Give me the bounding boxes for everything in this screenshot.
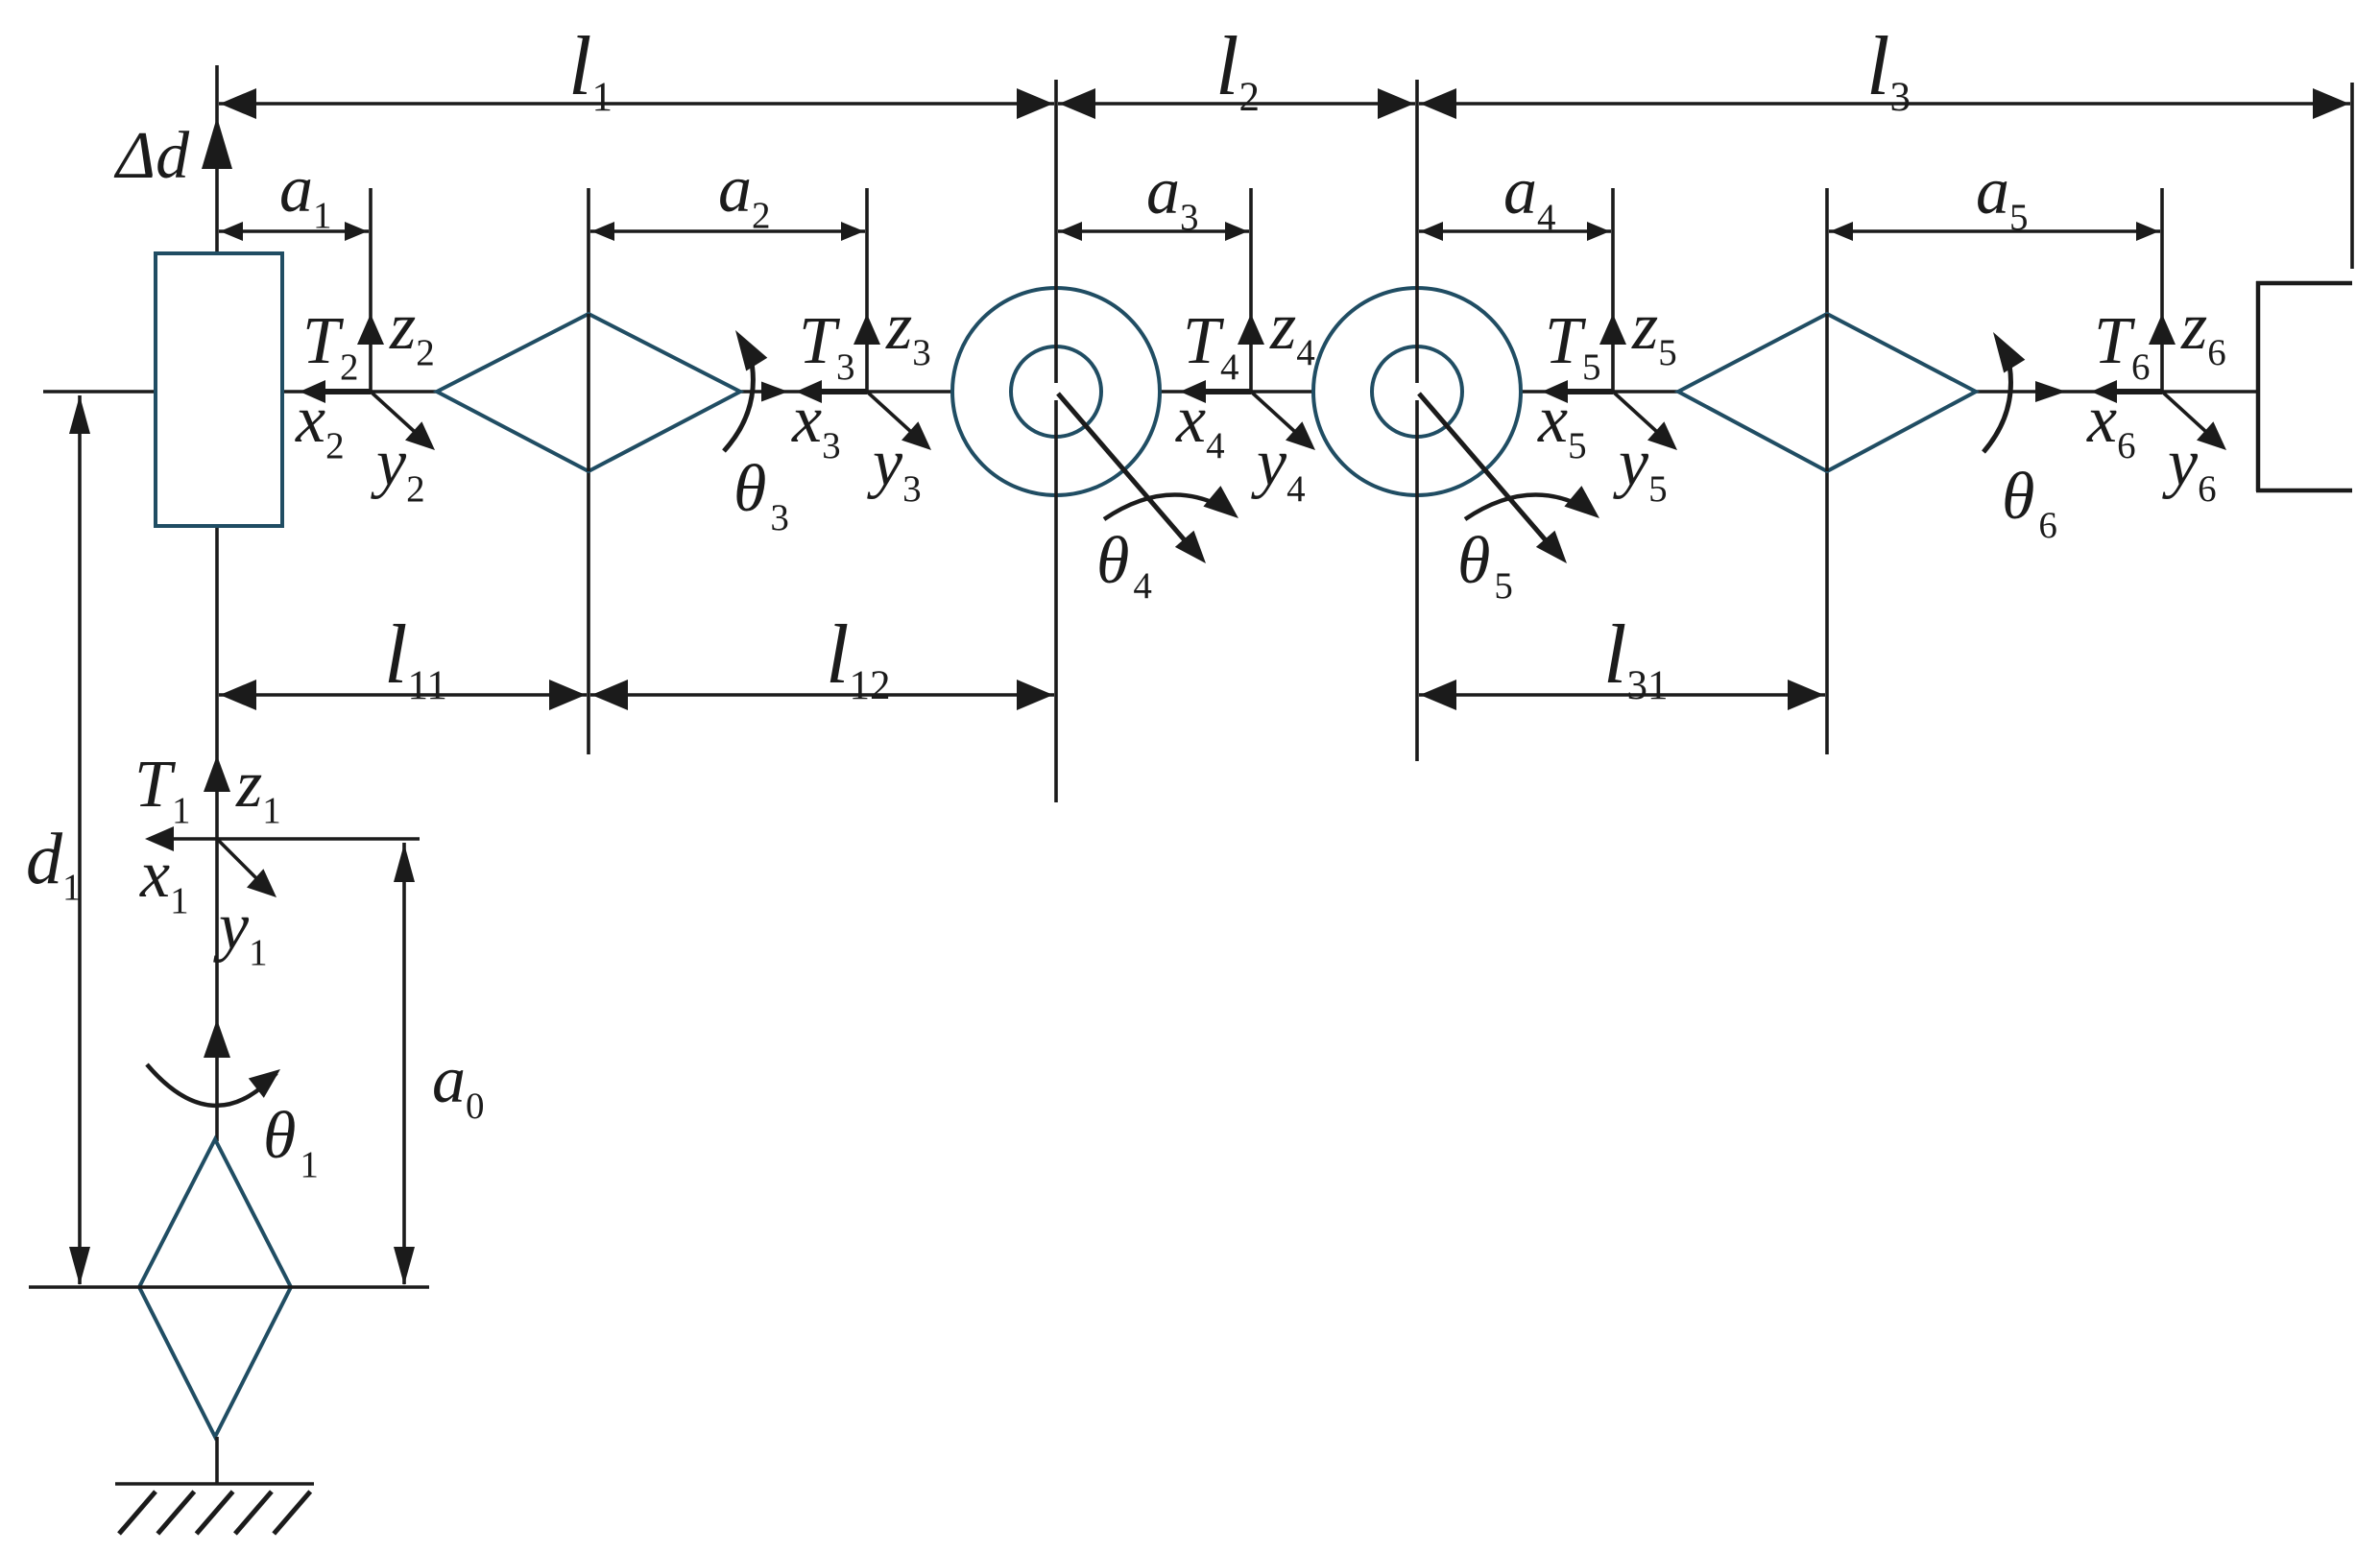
- svg-text:T5: T5: [1545, 304, 1600, 388]
- wire: joint-4 axis center line (lower): [1054, 400, 1058, 802]
- wire: joint-5 axis center line (upper): [1415, 80, 1419, 383]
- svg-text:x5: x5: [1537, 383, 1587, 466]
- label a0: [432, 1043, 485, 1127]
- axis z1 arrowhead: [204, 755, 230, 792]
- dimension line a3: [1058, 222, 1249, 241]
- svg-text:l2: l2: [1215, 20, 1260, 120]
- rotation arc theta1: [147, 1064, 280, 1106]
- label a3: [1146, 155, 1199, 238]
- svg-text:z4: z4: [1269, 290, 1315, 373]
- dimension line l11: [219, 680, 587, 710]
- svg-text:z3: z3: [885, 290, 931, 373]
- label T5: [1545, 304, 1600, 388]
- svg-text:a1: a1: [279, 153, 332, 236]
- wire: base reference line: [29, 1285, 429, 1289]
- label x4: [1175, 383, 1225, 466]
- svg-text:x4: x4: [1175, 383, 1225, 466]
- arrowhead up on base link (theta1 axis): [204, 1019, 230, 1058]
- svg-text:θ6: θ6: [2002, 460, 2057, 546]
- svg-text:θ1: θ1: [263, 1099, 319, 1185]
- svg-text:l1: l1: [568, 20, 613, 120]
- revolute joint 4 (inner circle): [1011, 346, 1101, 437]
- revolute joint 4 (outer circle): [952, 288, 1160, 495]
- label l2: [1215, 20, 1260, 120]
- svg-text:T2: T2: [302, 304, 358, 388]
- svg-text:y1: y1: [213, 890, 268, 973]
- label l3: [1866, 20, 1911, 120]
- revolute joint 5 (outer circle): [1313, 288, 1521, 495]
- label z5: [1631, 290, 1677, 373]
- axis arrow of joint 5 (diagonal): [1419, 394, 1567, 563]
- svg-text:T6: T6: [2094, 304, 2150, 388]
- svg-text:T3: T3: [799, 304, 854, 388]
- arrow Delta-d (upward arrowhead): [202, 117, 232, 169]
- svg-text:x2: x2: [295, 383, 345, 466]
- label T1: [134, 748, 190, 831]
- label x6: [2086, 383, 2136, 466]
- axis arrow of joint 4 (diagonal): [1058, 394, 1206, 563]
- rotation arc theta5: [1465, 486, 1599, 519]
- label a4: [1503, 155, 1556, 238]
- wire: l3 right end tick: [2350, 83, 2354, 269]
- svg-text:l12: l12: [826, 609, 890, 708]
- wire: joint-4 axis center line (upper): [1054, 80, 1058, 383]
- dimension line l1 (with arrows): [219, 88, 1054, 119]
- wire: joint-3 diamond center line: [587, 188, 590, 754]
- label y3: [867, 426, 922, 510]
- label x2: [295, 383, 345, 466]
- dimension line a5: [1829, 222, 2160, 241]
- revolute joint 6 (diamond): [1678, 314, 1976, 471]
- svg-text:a4: a4: [1503, 155, 1556, 238]
- dimension line a2: [590, 222, 865, 241]
- svg-text:l11: l11: [384, 609, 447, 708]
- label a5: [1976, 155, 2029, 238]
- arrow on link after joint-3 diamond: [761, 382, 788, 402]
- svg-text:z5: z5: [1631, 290, 1677, 373]
- dimension line l3 (with arrows): [1419, 88, 2350, 119]
- rotation arc theta4: [1104, 486, 1238, 519]
- svg-text:a5: a5: [1976, 155, 2029, 238]
- label z6: [2180, 290, 2226, 373]
- svg-text:T4: T4: [1183, 304, 1238, 388]
- revolute joint 3 (diamond): [437, 314, 740, 471]
- svg-text:x3: x3: [791, 383, 841, 466]
- label theta1: [263, 1099, 319, 1185]
- arrow on link after joint-6 diamond: [2035, 381, 2066, 402]
- label d1: [26, 819, 82, 908]
- svg-text:a3: a3: [1146, 155, 1199, 238]
- label y4: [1251, 426, 1306, 510]
- label z3: [885, 290, 931, 373]
- revolute joint 5 (inner circle): [1372, 346, 1462, 437]
- wire: joint-6 diamond center line: [1825, 188, 1829, 754]
- svg-text:z2: z2: [389, 290, 435, 373]
- label x5: [1537, 383, 1587, 466]
- frame T2 axes (x2,y2,z2): [300, 188, 435, 450]
- label y6: [2162, 426, 2217, 510]
- label x3: [791, 383, 841, 466]
- axis x1 arrowhead: [145, 826, 174, 851]
- label z1: [235, 748, 281, 831]
- wire: joint-3 center line over diamond: [587, 314, 590, 471]
- svg-text:x6: x6: [2086, 383, 2136, 466]
- label T6: [2094, 304, 2150, 388]
- label y2: [371, 426, 425, 510]
- label theta4: [1096, 524, 1152, 607]
- wire: joint-6 center line over diamond: [1825, 314, 1829, 471]
- svg-text:a2: a2: [718, 153, 771, 236]
- ground hatching: [119, 1492, 310, 1534]
- label T3: [799, 304, 854, 388]
- dimension line a0 (vertical): [394, 843, 415, 1285]
- base revolute joint 1 (diamond): [139, 1139, 291, 1437]
- frame T1 x1-axis / a0 reference line: [149, 837, 420, 841]
- svg-text:T1: T1: [134, 748, 190, 831]
- wire: joint-5 axis center line (lower): [1415, 400, 1419, 761]
- label theta5: [1457, 524, 1513, 607]
- rotation arc theta6: [1983, 332, 2025, 452]
- svg-text:d1: d1: [26, 819, 82, 908]
- dimension line a1: [219, 222, 369, 241]
- label x1: [139, 838, 189, 921]
- axis y1 arrow: [217, 839, 276, 897]
- label l11: [384, 609, 447, 708]
- label z4: [1269, 290, 1315, 373]
- label Delta-d: [113, 119, 190, 193]
- svg-text:l3: l3: [1866, 20, 1911, 120]
- wire: link from base diamond to ground: [215, 1437, 219, 1484]
- dimension line l12: [590, 680, 1054, 710]
- frame T3 axes (x3,y3,z3): [796, 188, 931, 450]
- ground line: [115, 1482, 314, 1486]
- dimension line a4: [1419, 222, 1611, 241]
- svg-text:Δd: Δd: [113, 119, 190, 193]
- dimension line l2 (with arrows): [1058, 88, 1415, 119]
- svg-text:l31: l31: [1603, 609, 1668, 708]
- label T4: [1183, 304, 1238, 388]
- svg-text:θ4: θ4: [1096, 524, 1152, 607]
- wire: main horizontal link axis: [43, 390, 2258, 394]
- label l12: [826, 609, 890, 708]
- rotation arc theta3: [724, 330, 767, 451]
- svg-text:x1: x1: [139, 838, 189, 921]
- svg-text:z6: z6: [2180, 290, 2226, 373]
- label y1: [213, 890, 268, 973]
- svg-text:θ5: θ5: [1457, 524, 1513, 607]
- svg-text:a0: a0: [432, 1043, 485, 1127]
- frame T4 axes (x4,y4,z4): [1180, 188, 1315, 450]
- label theta6: [2002, 460, 2057, 546]
- label z2: [389, 290, 435, 373]
- frame T5 axes (x5,y5,z5): [1542, 188, 1677, 450]
- label a2: [718, 153, 771, 236]
- end effector bracket: [2256, 281, 2352, 491]
- wire: vertical line above prismatic joint (l1 left tick): [215, 65, 219, 255]
- prismatic joint d1 (rectangle): [156, 253, 282, 526]
- svg-text:θ3: θ3: [733, 452, 789, 538]
- dimension line l31: [1419, 680, 1825, 710]
- label l1: [568, 20, 613, 120]
- label l31: [1603, 609, 1668, 708]
- label y5: [1613, 426, 1668, 510]
- svg-text:z1: z1: [235, 748, 281, 831]
- frame T6 axes (x6,y6,z6): [2091, 188, 2226, 450]
- label theta3: [733, 452, 789, 538]
- label a1: [279, 153, 332, 236]
- label T2: [302, 304, 358, 388]
- wire: vertical link line below prismatic joint down to base joint: [215, 526, 219, 1141]
- dimension line d1 (vertical): [69, 395, 90, 1285]
